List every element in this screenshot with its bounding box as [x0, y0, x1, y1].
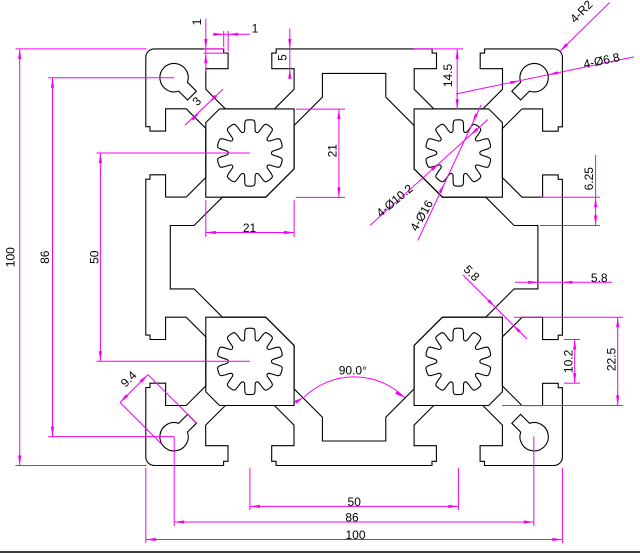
dim 100 bottom [145, 468, 147, 543]
dim 50 bottom [249, 468, 251, 510]
svg-text:10.2: 10.2 [562, 349, 576, 373]
dim 5.8 diagonal web [463, 275, 527, 339]
svg-text:100: 100 [345, 528, 365, 542]
gear bore BR [426, 328, 491, 394]
dim 4-Ø6.8 [456, 57, 634, 94]
core BL [206, 317, 294, 405]
dim 22.5 right [514, 316, 623, 318]
dim 1 vertical (step) [204, 48, 225, 50]
svg-text:1: 1 [190, 18, 204, 25]
svg-text:21: 21 [326, 144, 340, 158]
gear bore BL [218, 328, 283, 394]
dim 21 vertical [296, 108, 345, 110]
dim 50 left [97, 152, 250, 154]
svg-text:5.8: 5.8 [591, 271, 608, 285]
dim 9.4 (keyhole length) [120, 375, 148, 403]
dim 5 (slot lip) [289, 29, 291, 77]
dim 1 horizontal (step) [223, 31, 225, 47]
svg-text:86: 86 [38, 250, 52, 264]
svg-text:100: 100 [4, 247, 18, 267]
svg-text:50: 50 [348, 495, 362, 509]
dim 86 bottom [173, 437, 175, 526]
dim 10.2 right [564, 339, 580, 341]
svg-text:6.25: 6.25 [582, 167, 596, 191]
keyhole TR [512, 63, 549, 100]
dim 14.5 top [414, 48, 463, 50]
dim 4-R2 [560, 3, 610, 52]
keyhole BR [512, 414, 549, 451]
core TL [206, 109, 294, 197]
keyhole BL [160, 414, 197, 451]
dim 86 left [48, 77, 174, 79]
svg-text:21: 21 [243, 221, 257, 235]
dim 5.8 right horizontal [515, 281, 612, 283]
central cavity [170, 73, 538, 441]
outer profile outline [146, 49, 563, 466]
svg-text:14.5: 14.5 [441, 63, 455, 87]
svg-text:90.0°: 90.0° [339, 364, 367, 378]
dim 4-Ø10.2 [370, 120, 488, 226]
svg-text:50: 50 [88, 250, 102, 264]
gear bore TR [426, 120, 491, 186]
svg-text:1: 1 [252, 22, 259, 36]
svg-text:22.5: 22.5 [605, 347, 619, 371]
core BR [414, 317, 502, 405]
dim 4-Ø16 [418, 105, 481, 241]
keyhole TL [160, 63, 197, 100]
dim 21 horizontal [205, 200, 207, 237]
gear bore TL [218, 120, 283, 186]
svg-text:86: 86 [345, 511, 359, 525]
frame line bottom [0, 551, 640, 553]
dim 100 left [15, 48, 146, 50]
svg-text:5: 5 [276, 54, 290, 61]
dim 90.0 degrees [304, 377, 405, 398]
dim 6.25 right [540, 196, 600, 198]
core TR [414, 109, 502, 197]
dim 3 (keyhole web) [185, 89, 223, 125]
